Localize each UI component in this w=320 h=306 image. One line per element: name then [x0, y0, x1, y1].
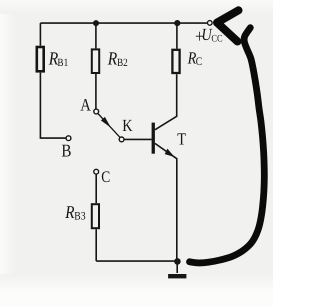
svg-text:B: B	[61, 140, 71, 160]
svg-text:K: K	[122, 116, 133, 135]
svg-text:C: C	[101, 169, 110, 186]
svg-text:R: R	[64, 202, 74, 222]
svg-text:B3: B3	[74, 211, 85, 223]
svg-text:B2: B2	[117, 57, 128, 69]
svg-text:R: R	[107, 50, 117, 70]
svg-text:A: A	[80, 95, 91, 115]
svg-text:B1: B1	[57, 57, 68, 69]
svg-text:CC: CC	[211, 34, 222, 45]
svg-text:T: T	[177, 130, 186, 149]
svg-text:C: C	[196, 56, 203, 68]
